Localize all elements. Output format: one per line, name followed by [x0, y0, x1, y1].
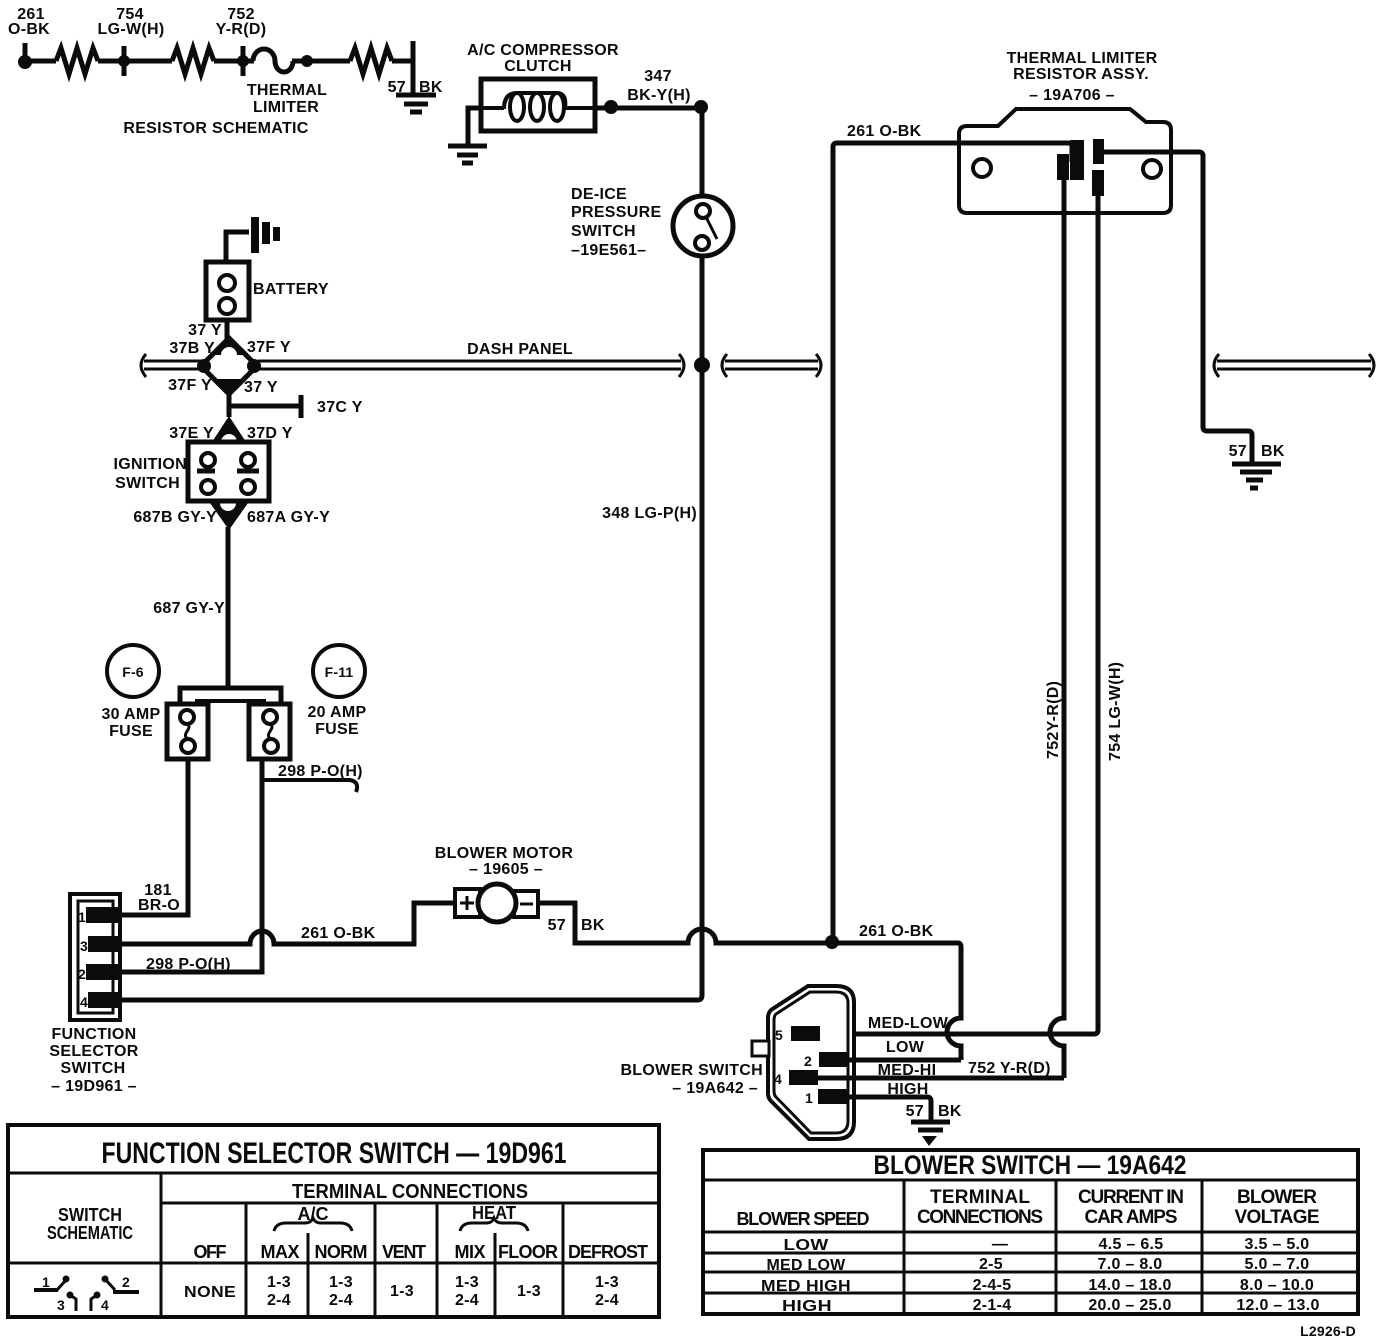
wire MED-HI: [818, 1076, 1064, 1081]
svg-text:BLOWER: BLOWER: [1237, 1187, 1317, 1208]
svg-text:SWITCH: SWITCH: [58, 1205, 122, 1225]
label IGNITION SWITCH: [113, 456, 187, 492]
svg-text:37F Y: 37F Y: [247, 339, 291, 356]
svg-text:261 O-BK: 261 O-BK: [847, 123, 922, 140]
svg-text:– 19605 –: – 19605 –: [469, 861, 543, 878]
svg-text:DE-ICE: DE-ICE: [571, 186, 627, 203]
node grommet dot dash panel: [694, 357, 710, 373]
label 754 LG-W(H) rotated: [1107, 662, 1124, 761]
blower switch table: [703, 1150, 1358, 1314]
wire 298 stub arrow: [262, 780, 357, 792]
svg-text:57: 57: [1229, 443, 1247, 460]
svg-text:Y-R(D): Y-R(D): [216, 21, 267, 38]
svg-text:NONE: NONE: [184, 1284, 236, 1301]
svg-text:L2926-D: L2926-D: [1300, 1323, 1356, 1338]
terminal right tick: [411, 41, 416, 78]
ground A/C clutch: [448, 146, 487, 163]
fuse F2 20A: [249, 704, 290, 759]
table data row: [184, 1274, 619, 1309]
svg-text:BK: BK: [581, 917, 605, 934]
label FUNCTION SELECTOR SWITCH: [49, 1026, 138, 1095]
label 752Y-R(D) rotated: [1045, 681, 1062, 759]
svg-text:4: 4: [80, 994, 88, 1010]
svg-text:FLOOR: FLOOR: [498, 1242, 558, 1262]
svg-text:752 Y-R(D): 752 Y-R(D): [968, 1060, 1051, 1077]
de-ice pressure switch: [673, 196, 733, 256]
svg-text:2-1-4: 2-1-4: [973, 1297, 1012, 1314]
svg-text:BK: BK: [1261, 443, 1285, 460]
pin 2 LOW: [804, 1052, 848, 1069]
svg-text:THERMAL: THERMAL: [247, 82, 327, 99]
svg-text:OFF: OFF: [194, 1242, 227, 1262]
label BLOWER MOTOR: [435, 845, 574, 878]
svg-text:FUNCTION SELECTOR SWITCH — 19D: FUNCTION SELECTOR SWITCH — 19D961: [102, 1137, 567, 1170]
svg-text:RESISTOR SCHEMATIC: RESISTOR SCHEMATIC: [123, 120, 308, 137]
node 752 Y-R(D) label: [216, 6, 267, 38]
svg-text:LIMITER: LIMITER: [253, 99, 319, 116]
svg-text:BLOWER SPEED: BLOWER SPEED: [737, 1209, 870, 1229]
svg-text:1-3: 1-3: [595, 1274, 619, 1291]
table header TERMINAL CONNECTIONS: [292, 1181, 528, 1203]
svg-text:4: 4: [774, 1071, 782, 1087]
fuse F1 30A: [167, 704, 208, 759]
label L2926-D: [1300, 1323, 1356, 1338]
svg-text:F-6: F-6: [122, 664, 144, 680]
dash panel end curls: [141, 354, 1374, 377]
svg-text:PRESSURE: PRESSURE: [571, 204, 661, 221]
svg-text:30 AMP: 30 AMP: [101, 706, 160, 723]
svg-text:1-3: 1-3: [517, 1283, 541, 1300]
svg-text:– 19A706 –: – 19A706 –: [1029, 87, 1115, 104]
svg-text:CONNECTIONS: CONNECTIONS: [917, 1207, 1043, 1228]
svg-text:754 LG-W(H): 754 LG-W(H): [1107, 662, 1124, 761]
terminal left end: [18, 43, 32, 69]
svg-text:VOLTAGE: VOLTAGE: [1235, 1207, 1320, 1228]
wire de-ice feed: [700, 107, 705, 196]
svg-text:1-3: 1-3: [267, 1274, 291, 1291]
label 37D Y: [247, 425, 293, 442]
svg-text:1: 1: [42, 1274, 50, 1290]
label 37C Y: [317, 399, 363, 416]
svg-text:2: 2: [78, 966, 86, 982]
svg-text:MED-LOW: MED-LOW: [868, 1015, 949, 1032]
label 261 O-BK left: [301, 925, 376, 942]
svg-text:FUNCTION: FUNCTION: [51, 1026, 136, 1043]
label 57 BK right: [1229, 443, 1285, 460]
ground right 57 BK: [1232, 464, 1281, 488]
label MED-HI: [878, 1062, 937, 1079]
svg-text:14.0 – 18.0: 14.0 – 18.0: [1088, 1277, 1171, 1294]
pin 1: [78, 907, 119, 925]
wire 754 LG-W(H) vertical joining MED-LOW: [820, 195, 1098, 1034]
svg-text:1-3: 1-3: [329, 1274, 353, 1291]
svg-text:752Y-R(D): 752Y-R(D): [1045, 681, 1062, 759]
svg-text:TERMINAL: TERMINAL: [930, 1187, 1030, 1208]
node junction tick 2: [237, 46, 249, 76]
svg-text:LOW: LOW: [886, 1039, 925, 1056]
wire thermal limiter schematic main line: [25, 61, 413, 94]
svg-text:7.0 – 8.0: 7.0 – 8.0: [1098, 1256, 1163, 1273]
wire 37C Y stub: [229, 395, 301, 418]
label 57 BK blower: [906, 1103, 962, 1120]
wire 687 GY-Y: [226, 527, 231, 688]
svg-text:4.5 – 6.5: 4.5 – 6.5: [1099, 1236, 1164, 1253]
svg-text:5.0 – 7.0: 5.0 – 7.0: [1245, 1256, 1310, 1273]
svg-text:8.0 – 10.0: 8.0 – 10.0: [1240, 1277, 1314, 1294]
table headers row: [194, 1242, 649, 1262]
pin 1 HIGH: [805, 1089, 847, 1106]
svg-text:37 Y: 37 Y: [244, 379, 278, 396]
blower table row MED HIGH: [761, 1277, 1314, 1295]
label 348 LG-P(H) mid: [602, 505, 697, 522]
svg-text:VENT: VENT: [382, 1242, 426, 1262]
svg-text:1: 1: [805, 1090, 813, 1106]
svg-text:MED HIGH: MED HIGH: [761, 1278, 851, 1295]
label 37B Y: [169, 340, 215, 357]
thermal limiter resistor assembly box U1: [959, 109, 1171, 213]
svg-text:687B GY-Y: 687B GY-Y: [133, 509, 217, 526]
svg-text:MAX: MAX: [261, 1242, 300, 1262]
table header A/C with brace: [274, 1204, 352, 1231]
wire LOW: [848, 1058, 961, 1063]
wire 261 O-BK pin 3 to blower motor with hop: [120, 903, 455, 944]
pin 3: [80, 936, 119, 954]
svg-text:3: 3: [80, 938, 88, 954]
wire HIGH to ground: [847, 1097, 931, 1120]
svg-text:298 P-O(H): 298 P-O(H): [278, 763, 363, 780]
svg-text:20 AMP: 20 AMP: [307, 704, 366, 721]
label 261 O-BK top: [847, 123, 922, 140]
svg-text:BR-O: BR-O: [138, 897, 180, 914]
node 754 LG-W(H) label: [98, 6, 165, 38]
label 37F Y right: [247, 339, 291, 356]
svg-text:37F Y: 37F Y: [168, 377, 212, 394]
svg-text:FUSE: FUSE: [109, 723, 153, 740]
label 20 AMP FUSE: [307, 704, 366, 738]
svg-text:37D Y: 37D Y: [247, 425, 293, 442]
label 298 P-O(H) upper: [278, 763, 363, 780]
blower table row LOW: [784, 1236, 1310, 1254]
battery ground terminal symbol: [226, 217, 280, 263]
label 752 Y-R(D): [968, 1060, 1051, 1077]
label MED-LOW: [868, 1015, 949, 1032]
battery: [206, 262, 249, 320]
connector diamond splice: [197, 338, 261, 394]
node 261 O-BK label: [8, 6, 50, 38]
label LOW: [886, 1039, 925, 1056]
ground blower switch: [911, 1122, 950, 1146]
svg-text:1-3: 1-3: [455, 1274, 479, 1291]
wire 261 O-BK to thermal limiter: [833, 143, 1072, 942]
label 30 AMP FUSE: [101, 706, 160, 740]
label 57 BK motor: [548, 917, 605, 934]
label 57 BK schematic: [388, 79, 443, 96]
svg-text:BLOWER SWITCH: BLOWER SWITCH: [620, 1062, 763, 1079]
svg-text:347: 347: [644, 68, 672, 85]
svg-text:SWITCH: SWITCH: [571, 223, 636, 240]
svg-text:MIX: MIX: [455, 1242, 486, 1262]
svg-text:MED LOW: MED LOW: [767, 1257, 847, 1274]
svg-text:BK-Y(H): BK-Y(H): [627, 87, 690, 104]
svg-text:2-5: 2-5: [979, 1256, 1003, 1273]
svg-text:57: 57: [548, 917, 566, 934]
svg-text:MED-HI: MED-HI: [878, 1062, 937, 1079]
thermal limiter loop element: [253, 49, 293, 72]
label 347 BK-Y(H): [627, 68, 690, 104]
svg-text:SELECTOR: SELECTOR: [49, 1043, 138, 1060]
pin 4: [80, 992, 119, 1010]
svg-text:2: 2: [122, 1274, 130, 1290]
svg-text:BLOWER SWITCH — 19A642: BLOWER SWITCH — 19A642: [874, 1150, 1187, 1180]
svg-text:LG-W(H): LG-W(H): [98, 21, 165, 38]
ignition switch: [188, 442, 269, 501]
fuse id circle F-11: [313, 645, 365, 697]
wire 347 BK-Y(H): [595, 100, 708, 114]
wire 181 BR-O fuse to pin 1: [120, 759, 188, 915]
wire 752 Y-R(D) vertical with hop: [1050, 180, 1064, 1078]
resistor R1: [56, 48, 98, 74]
svg-text:261 O-BK: 261 O-BK: [859, 923, 934, 940]
function selector switch table: [8, 1125, 659, 1317]
pin 2: [78, 964, 119, 982]
resistor R3: [350, 48, 392, 74]
blower table row HIGH: [782, 1297, 1320, 1315]
label 687A GY-Y: [247, 509, 330, 526]
svg-text:TERMINAL CONNECTIONS: TERMINAL CONNECTIONS: [292, 1181, 528, 1203]
svg-text:DASH PANEL: DASH PANEL: [467, 341, 573, 358]
svg-text:IGNITION: IGNITION: [113, 456, 187, 473]
wire clutch to ground: [468, 108, 481, 144]
svg-text:CLUTCH: CLUTCH: [504, 58, 572, 75]
label THERMAL LIMITER RESISTOR ASSY: [1007, 50, 1158, 104]
label BATTERY: [253, 281, 329, 298]
svg-text:1: 1: [78, 909, 86, 925]
svg-text:A/C COMPRESSOR: A/C COMPRESSOR: [467, 42, 619, 59]
svg-text:LOW: LOW: [784, 1237, 830, 1254]
thermal limiter terminals: [1057, 139, 1104, 196]
svg-text:F-11: F-11: [325, 664, 354, 680]
svg-text:RESISTOR ASSY.: RESISTOR ASSY.: [1013, 66, 1149, 83]
node junction dot 3: [301, 55, 313, 67]
svg-text:2-4-5: 2-4-5: [973, 1277, 1012, 1294]
label HIGH: [887, 1081, 928, 1098]
svg-text:–19E561–: –19E561–: [571, 242, 646, 259]
fuse block bracket: [180, 688, 281, 708]
svg-text:2-4: 2-4: [595, 1292, 619, 1309]
svg-text:4: 4: [101, 1297, 109, 1313]
fuse id circle F-6: [107, 645, 159, 697]
blower switch tab: [752, 1041, 769, 1056]
svg-text:298 P-O(H): 298 P-O(H): [146, 956, 231, 973]
label 298 P-O(H) lower: [146, 956, 231, 973]
pin 4 MED-HI: [774, 1070, 818, 1087]
svg-text:DEFROST: DEFROST: [568, 1242, 648, 1262]
svg-text:BLOWER MOTOR: BLOWER MOTOR: [435, 845, 574, 862]
svg-text:37C Y: 37C Y: [317, 399, 363, 416]
svg-text:3: 3: [57, 1297, 65, 1313]
table header SWITCH SCHEMATIC: [47, 1205, 133, 1243]
svg-text:687 GY-Y: 687 GY-Y: [153, 600, 225, 617]
table header HEAT with brace: [460, 1203, 528, 1231]
svg-text:SCHEMATIC: SCHEMATIC: [47, 1223, 133, 1243]
svg-text:687A GY-Y: 687A GY-Y: [247, 509, 330, 526]
svg-text:CURRENT IN: CURRENT IN: [1078, 1187, 1184, 1208]
wire battery to diamond: [225, 320, 230, 340]
wire diamond down: [227, 394, 232, 417]
A/C compressor clutch box: [481, 79, 595, 131]
switch schematic symbol: [34, 1274, 139, 1313]
blower motor M1: [455, 884, 538, 922]
svg-text:57: 57: [906, 1103, 924, 1120]
svg-text:2: 2: [804, 1053, 812, 1069]
wire thermal limiter to ground 57 BK: [1098, 152, 1252, 463]
blower table row MED LOW: [767, 1256, 1310, 1274]
dash panel line: [144, 361, 1371, 369]
label BLOWER SWITCH: [620, 1062, 763, 1097]
svg-text:—: —: [992, 1236, 1008, 1253]
svg-text:HIGH: HIGH: [887, 1081, 928, 1098]
svg-text:261 O-BK: 261 O-BK: [301, 925, 376, 942]
connector splice 37E/37D: [212, 416, 246, 442]
svg-text:1-3: 1-3: [390, 1283, 414, 1300]
label A/C COMPRESSOR CLUTCH: [467, 42, 619, 75]
label 37E Y: [169, 425, 214, 442]
svg-text:BATTERY: BATTERY: [253, 281, 329, 298]
svg-text:2-4: 2-4: [267, 1292, 291, 1309]
svg-text:THERMAL LIMITER: THERMAL LIMITER: [1007, 50, 1158, 67]
table title FUNCTION SELECTOR SWITCH 19D961: [102, 1137, 567, 1170]
svg-text:BK: BK: [938, 1103, 962, 1120]
label THERMAL LIMITER RESISTOR SCHEMATIC: [123, 82, 327, 137]
wire 348 LG-P(H) vertical and to pin 4: [120, 256, 702, 1000]
svg-text:O-BK: O-BK: [8, 21, 50, 38]
wire 57 BK motor to junction: [538, 903, 961, 1060]
label 261 O-BK right: [859, 923, 934, 940]
svg-text:– 19A642 –: – 19A642 –: [672, 1080, 758, 1097]
svg-text:2-4: 2-4: [329, 1292, 353, 1309]
svg-text:37B Y: 37B Y: [169, 340, 215, 357]
svg-text:– 19D961 –: – 19D961 –: [51, 1078, 137, 1095]
svg-text:12.0 – 13.0: 12.0 – 13.0: [1236, 1297, 1319, 1314]
clutch coil: [481, 93, 595, 121]
svg-text:5: 5: [775, 1027, 783, 1043]
svg-text:3.5 – 5.0: 3.5 – 5.0: [1245, 1236, 1310, 1253]
svg-text:20.0 – 25.0: 20.0 – 25.0: [1088, 1297, 1171, 1314]
label DE-ICE PRESSURE SWITCH: [571, 186, 661, 259]
ground schematic right: [396, 95, 436, 112]
svg-text:348 LG-P(H): 348 LG-P(H): [602, 505, 697, 522]
table title BLOWER SWITCH 19A642: [874, 1150, 1187, 1180]
node junction 261: [825, 935, 839, 949]
function selector switch connector: [70, 894, 120, 1020]
node junction tick 1: [118, 46, 130, 76]
label 687 GY-Y: [153, 600, 225, 617]
label 687B GY-Y: [133, 509, 217, 526]
label 37F Y lower left: [168, 377, 212, 394]
svg-text:NORM: NORM: [315, 1242, 368, 1262]
resistor R2: [172, 48, 214, 74]
svg-text:37 Y: 37 Y: [188, 322, 222, 339]
label 181 BR-O: [138, 882, 180, 914]
blower table headers: [737, 1187, 1320, 1229]
connector splice 687B/687A: [210, 503, 248, 530]
label 37 Y lower right: [244, 379, 278, 396]
svg-text:HIGH: HIGH: [782, 1298, 832, 1315]
pin 5 MED-LOW: [775, 1026, 820, 1043]
svg-text:37E Y: 37E Y: [169, 425, 214, 442]
svg-text:SWITCH: SWITCH: [115, 475, 180, 492]
label 37 Y: [188, 322, 222, 339]
svg-text:CAR AMPS: CAR AMPS: [1085, 1207, 1178, 1228]
blower switch connector outline: [768, 986, 854, 1139]
svg-text:FUSE: FUSE: [315, 721, 359, 738]
svg-text:SWITCH: SWITCH: [61, 1060, 126, 1077]
svg-text:2-4: 2-4: [455, 1292, 479, 1309]
wire 298 P-O(H) fuse to pin 2: [120, 759, 262, 972]
label DASH PANEL: [467, 341, 573, 358]
